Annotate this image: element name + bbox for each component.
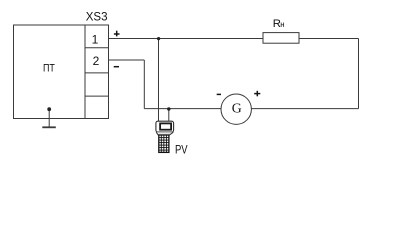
connector divider 1/2 bbox=[85, 47, 109, 49]
wire pin1 to resistor bbox=[109, 38, 264, 40]
ground stem bbox=[48, 109, 50, 127]
connector XS3 bbox=[85, 25, 109, 119]
svg-text:PV: PV bbox=[175, 143, 188, 157]
svg-text:G: G bbox=[232, 101, 242, 116]
label minus G bbox=[217, 93, 221, 95]
svg-text:XS3: XS3 bbox=[86, 10, 108, 24]
svg-text:2: 2 bbox=[93, 54, 100, 68]
svg-text:1: 1 bbox=[92, 33, 99, 47]
node dot ground bbox=[47, 107, 51, 111]
connector divider 2/3 bbox=[85, 72, 109, 74]
wire resistor to right corner bbox=[299, 38, 359, 40]
transducer box PT bbox=[14, 25, 86, 119]
wire right side vertical bbox=[358, 39, 360, 109]
node dot bottom/PV bbox=[167, 107, 170, 110]
svg-text:ПТ: ПТ bbox=[43, 63, 55, 75]
wire bottom bbox=[144, 108, 358, 110]
wire pin2 horizontal bbox=[109, 59, 145, 61]
label plus G bbox=[254, 91, 260, 97]
node dot pin1/PV bbox=[157, 37, 160, 40]
ground bar bbox=[42, 126, 56, 128]
wire pin2 vertical bbox=[143, 60, 145, 109]
resistor Rn bbox=[263, 33, 299, 44]
label minus pin2 bbox=[114, 66, 119, 68]
wire PV right lead bbox=[168, 109, 170, 122]
wire PV left lead bbox=[158, 39, 160, 122]
galvanometer G circle bbox=[221, 94, 251, 124]
label plus pin1 bbox=[114, 31, 120, 37]
voltmeter PV icon bbox=[156, 121, 174, 152]
svg-text:н: н bbox=[280, 20, 284, 29]
connector divider 3/4 bbox=[85, 95, 109, 97]
